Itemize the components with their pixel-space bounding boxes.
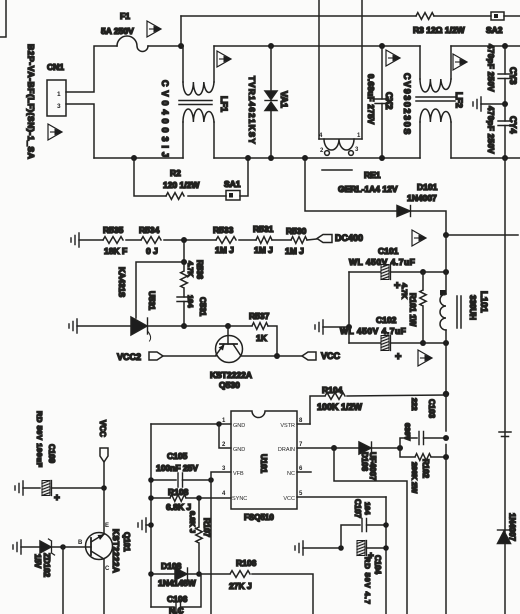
svg-text:TVR14621KSY: TVR14621KSY — [247, 76, 256, 145]
node Q101 base — [60, 544, 66, 550]
wire R530 to tag — [307, 239, 317, 240]
node C105 left — [148, 477, 154, 483]
svg-text:470pF 250V: 470pF 250V — [486, 44, 495, 92]
wire LF2 winding1 left lead — [419, 46, 421, 79]
inductor LF1 — [179, 82, 229, 122]
transistor Q101 KST2222A — [78, 523, 131, 614]
wire CN1 pin1 to fuse — [66, 46, 117, 92]
capacitor C109 — [35, 411, 104, 504]
svg-text:DRAIN: DRAIN — [278, 447, 295, 453]
svg-text:R537: R537 — [249, 311, 270, 321]
svg-text:1M J: 1M J — [285, 246, 304, 256]
node D108 right — [196, 571, 202, 577]
wire pin3 VFB to C105 — [211, 472, 231, 480]
svg-text:R2: R2 — [170, 168, 181, 178]
svg-text:VFB: VFB — [233, 471, 244, 477]
capacitor C104 — [357, 541, 386, 605]
connector CN1 part number B2P-VA-BF(LF)(SN)-1_SA — [26, 44, 36, 160]
svg-text:GERL-1A4 12V: GERL-1A4 12V — [338, 184, 398, 194]
svg-text:C107: C107 — [353, 499, 362, 519]
node rail A at R102 — [443, 454, 449, 460]
svg-text:WL 450V 4.7uF: WL 450V 4.7uF — [340, 326, 406, 336]
safety mark near LF2 — [453, 54, 468, 70]
resistor R535 — [103, 225, 127, 256]
node Q530 emitter — [274, 353, 280, 359]
diode D101 1N4007 — [397, 182, 438, 217]
wire bottom rail left — [94, 157, 183, 159]
wire bottom rail right — [451, 157, 520, 159]
svg-text:CX2: CX2 — [384, 92, 394, 110]
node C102 right — [420, 340, 426, 346]
svg-text:C104: C104 — [373, 555, 382, 575]
border corner top-left — [0, 0, 6, 37]
capacitor CY4 — [498, 104, 518, 158]
resistor R531 — [253, 224, 274, 255]
wire SA1 up to bottom rail — [240, 158, 248, 196]
wire DRAIN branch down — [334, 448, 407, 614]
svg-text:U101: U101 — [259, 454, 268, 474]
node rail A at C103 — [443, 435, 449, 441]
wire CN1 pin3 to bottom rail — [66, 104, 94, 158]
resistor R101 — [400, 272, 426, 343]
node VA1 bottom — [268, 155, 274, 161]
inductor LF1 part number — [160, 80, 170, 161]
svg-text:KA431S: KA431S — [117, 267, 126, 298]
node R2 branch right — [245, 155, 251, 161]
node C104 right — [383, 545, 389, 551]
svg-text:18K F: 18K F — [104, 246, 127, 256]
varistor VA1 part number TVR14621KSY — [247, 76, 256, 145]
svg-text:R108: R108 — [168, 487, 189, 497]
svg-text:1M J: 1M J — [215, 245, 234, 255]
svg-text:120 1/2W: 120 1/2W — [163, 180, 200, 190]
svg-text:DC400: DC400 — [335, 233, 363, 243]
node C101 right — [420, 269, 426, 275]
wire R533-R531 — [239, 239, 256, 241]
wire LF1 winding1 right lead to second rail — [213, 46, 215, 82]
svg-text:SA2: SA2 — [486, 25, 503, 35]
resistor R108 — [151, 487, 199, 512]
svg-text:L101: L101 — [478, 291, 489, 313]
capacitor CY4 value — [486, 106, 495, 154]
capacitor CX2 — [375, 46, 394, 158]
wire D101 to rail A — [411, 211, 447, 235]
node Q530 collector — [225, 323, 231, 329]
resistor R534 — [139, 225, 161, 256]
svg-text:1N4148W: 1N4148W — [158, 578, 197, 588]
wire block left rail — [348, 272, 350, 343]
zener ZD102 15V — [33, 539, 63, 578]
wire C101 node to rail A — [423, 271, 446, 273]
svg-text:ZD102: ZD102 — [42, 553, 51, 578]
ground C101 C102 — [315, 320, 349, 334]
node R536 top — [181, 259, 187, 265]
svg-text:VCC2: VCC2 — [117, 352, 141, 362]
svg-text:4.7K: 4.7K — [400, 283, 409, 299]
surge absorber SA1 — [224, 179, 241, 200]
svg-text:C102: C102 — [376, 315, 397, 325]
wire rail A seg4 — [445, 445, 447, 614]
node C109 VCC — [101, 485, 107, 491]
node fuse junction — [178, 43, 184, 49]
capacitor CX2 value — [366, 74, 375, 125]
wire rail A seg1 — [445, 235, 447, 272]
wire node down — [183, 240, 185, 262]
diode D106 UF4007 — [359, 442, 400, 481]
svg-text:D101: D101 — [417, 182, 438, 192]
svg-text:CY3: CY3 — [508, 67, 518, 85]
svg-text:FSQ510: FSQ510 — [244, 513, 274, 522]
wire pin1 GND — [151, 423, 231, 425]
ground CY mid — [473, 97, 505, 111]
wire rail A seg3 — [445, 394, 447, 431]
svg-text:VA1: VA1 — [279, 91, 289, 108]
connector CN1 label — [47, 62, 64, 72]
wire LF2 winding1 right lead — [450, 46, 452, 79]
capacitor CY3 value — [486, 44, 495, 92]
wire pin5 VCC — [297, 496, 386, 498]
tag VCC mid — [277, 351, 341, 361]
svg-text:R106: R106 — [236, 558, 257, 568]
svg-text:C531: C531 — [198, 297, 207, 317]
svg-text:5A 250V: 5A 250V — [101, 26, 134, 36]
wire R534 to node — [164, 239, 216, 241]
svg-text:CN1: CN1 — [47, 62, 64, 72]
ground R535 — [71, 233, 103, 247]
fuse F1 — [101, 11, 148, 52]
surge absorber SA2 — [486, 12, 504, 35]
ground C109 — [15, 481, 40, 495]
svg-text:VCC: VCC — [283, 496, 295, 502]
resistor R102 — [400, 448, 446, 494]
wire base node down — [62, 547, 64, 614]
wire node to Q530 collector node — [184, 325, 228, 327]
svg-text:U531: U531 — [147, 291, 156, 311]
resistor R104 — [310, 385, 446, 424]
tag VCC top — [98, 420, 108, 488]
ground mark right rail — [499, 432, 511, 437]
svg-text:SA1: SA1 — [224, 179, 241, 189]
svg-text:R536: R536 — [195, 260, 204, 280]
node CX2 top — [379, 43, 385, 49]
node CY mid — [502, 101, 508, 107]
svg-text:R107: R107 — [202, 518, 211, 538]
capacitor C101 — [349, 246, 423, 292]
node C105 right — [208, 477, 214, 483]
wire to D101 — [305, 158, 396, 211]
svg-text:3: 3 — [57, 103, 61, 110]
svg-text:KST2222A: KST2222A — [210, 370, 252, 380]
svg-text:LF1: LF1 — [219, 96, 229, 112]
wire C102 node to rail A — [423, 342, 446, 344]
svg-text:C103: C103 — [427, 399, 436, 419]
shunt regulator U531 KA431S — [117, 267, 156, 341]
transistor Q530 KST2222A — [210, 326, 277, 390]
capacitor C105 — [151, 451, 211, 487]
node feedback top — [181, 237, 187, 243]
svg-text:1M J: 1M J — [254, 245, 273, 255]
wire R537 to emitter node — [268, 326, 277, 356]
resistor R2 — [163, 168, 200, 199]
svg-text:0.68uF 275V: 0.68uF 275V — [366, 74, 375, 125]
wire rail A seg2 — [445, 343, 447, 394]
svg-text:R101 1W: R101 1W — [408, 293, 417, 327]
svg-text:WL 450V 4.7uF: WL 450V 4.7uF — [349, 257, 415, 267]
node pin1 — [216, 421, 222, 427]
svg-text:1N4007: 1N4007 — [508, 513, 517, 542]
wire R2 branch down — [134, 158, 166, 196]
wire KA431 to node — [148, 325, 185, 327]
svg-text:NC: NC — [287, 471, 295, 477]
safety mark near D101 — [412, 230, 427, 246]
capacitor C106 — [151, 574, 201, 614]
varistor VA1 — [265, 46, 289, 158]
inductor LF2 — [416, 79, 464, 122]
node CY column top — [502, 43, 508, 49]
svg-text:+: + — [394, 280, 400, 292]
svg-text:KST2222A: KST2222A — [111, 529, 120, 573]
node rail A mid — [443, 340, 449, 346]
svg-text:B: B — [78, 540, 83, 546]
node C107 right — [383, 522, 389, 528]
connector CN1 — [47, 80, 66, 116]
wire bottom rail middle — [214, 157, 420, 159]
wire pin6 NC stub — [297, 471, 311, 473]
svg-text:1: 1 — [57, 91, 61, 98]
IC U101 FSQ510 — [222, 411, 303, 522]
svg-text:Q101: Q101 — [122, 532, 131, 552]
relay RE1 — [319, 133, 398, 194]
svg-text:0 J: 0 J — [146, 246, 158, 256]
inductor LF2 part number CV930230S — [402, 73, 412, 136]
ground left bus — [138, 518, 151, 532]
svg-text:GND: GND — [233, 447, 245, 453]
tag DC400 — [317, 233, 363, 243]
wire junction up to top rail — [180, 16, 182, 46]
node R108 right — [196, 495, 202, 501]
wire R3 to SA2 — [434, 15, 491, 17]
wire LF1 winding2 right lead — [213, 122, 215, 158]
svg-text:RD 50V 100uF: RD 50V 100uF — [35, 411, 44, 468]
svg-text:Q530: Q530 — [219, 380, 240, 390]
svg-text:6.8K J: 6.8K J — [166, 502, 191, 512]
resistor R533 — [213, 225, 236, 255]
node CY column bottom — [502, 155, 508, 161]
node C531 bottom — [181, 323, 187, 329]
wire pin8 VSTR — [297, 423, 310, 425]
svg-text:R531: R531 — [253, 224, 274, 234]
wire R531-R530 — [272, 239, 291, 241]
wire VFB bus down — [210, 480, 212, 614]
svg-text:R3 12Ω 1/2W: R3 12Ω 1/2W — [413, 25, 466, 35]
safety mark near LF1 — [217, 51, 232, 67]
svg-text:VCC: VCC — [321, 351, 341, 361]
svg-text:200K 2W: 200K 2W — [410, 462, 419, 494]
resistor R3 — [413, 13, 466, 35]
svg-text:R535: R535 — [103, 225, 124, 235]
wire second rail — [214, 45, 520, 47]
svg-text:104: 104 — [186, 295, 195, 308]
node D106 cathode — [397, 445, 403, 451]
node D108 left — [148, 571, 154, 577]
wire node to right edge — [446, 234, 518, 236]
resistor R530 — [285, 226, 307, 256]
tag VCC2 — [117, 352, 216, 362]
svg-text:CV04003IJ: CV04003IJ — [160, 80, 170, 161]
svg-text:D106: D106 — [360, 452, 369, 472]
wire right rail — [504, 158, 506, 614]
svg-text:15V: 15V — [33, 554, 42, 569]
svg-text:C106: C106 — [167, 594, 188, 604]
node rail A upper — [443, 269, 449, 275]
wire LF1 winding2 left lead — [182, 122, 184, 158]
svg-text:E: E — [105, 523, 109, 529]
svg-text:SYNC: SYNC — [232, 496, 247, 502]
svg-text:6.8K J: 6.8K J — [188, 511, 197, 533]
resistor R107 — [188, 498, 211, 574]
ground ZD102 — [13, 540, 40, 554]
node C107 C104 left — [338, 545, 344, 551]
node rail A top — [443, 232, 449, 238]
resistor R106 — [199, 558, 313, 614]
svg-text:LF2: LF2 — [454, 92, 464, 108]
svg-text:R102: R102 — [421, 459, 430, 479]
resistor R537 — [228, 311, 270, 343]
node R108 left — [148, 495, 154, 501]
node VA1 top — [268, 43, 274, 49]
wire VCC node to Q101 — [103, 488, 105, 534]
svg-text:R534: R534 — [139, 225, 160, 235]
inductor L101 330UH — [440, 272, 489, 343]
diode D108 1N4148W — [151, 561, 199, 588]
svg-text:C: C — [105, 566, 110, 572]
wire fuse to junction — [148, 45, 181, 47]
svg-text:CY4: CY4 — [508, 116, 518, 134]
diode right rail 1N4007 — [498, 513, 517, 544]
node R2 branch left — [131, 155, 137, 161]
ground C104 — [295, 541, 341, 555]
wire base node to Q101 — [63, 546, 91, 548]
capacitor C102 — [340, 315, 423, 363]
svg-text:630V: 630V — [403, 423, 412, 441]
svg-text:100nF 25V: 100nF 25V — [156, 463, 198, 473]
wire R108 to pin4 SYNC — [199, 497, 231, 499]
capacitor CY3 — [498, 46, 518, 104]
wire LF2 winding2 leads — [420, 122, 451, 158]
wire LF1 winding1 left lead — [181, 46, 183, 82]
capacitor C103 — [400, 398, 446, 448]
wire R2 to SA1 — [188, 195, 226, 197]
node D101 branch — [302, 155, 308, 161]
svg-text:CV930230S: CV930230S — [402, 73, 412, 136]
svg-text:+: + — [54, 493, 60, 504]
svg-text:330UH: 330UH — [468, 295, 477, 320]
wire VCC branch down — [385, 497, 387, 614]
svg-text:100K 1/2W: 100K 1/2W — [317, 402, 363, 412]
svg-text:B2P-VA-BF(LF)(SN)-1_SA: B2P-VA-BF(LF)(SN)-1_SA — [26, 44, 36, 160]
capacitor C107 — [341, 499, 386, 548]
node bus ground — [148, 522, 154, 528]
svg-text:C101: C101 — [378, 246, 399, 256]
wire R535-R534 — [126, 239, 141, 241]
svg-text:R530: R530 — [286, 226, 307, 236]
relay RE1 contact leads — [319, 0, 362, 139]
svg-text:1N4007: 1N4007 — [407, 193, 437, 203]
node rail A at R104 — [443, 391, 449, 397]
wire pin1 to pin2 — [219, 424, 231, 448]
capacitor C531 — [177, 295, 207, 326]
svg-text:D108: D108 — [161, 561, 182, 571]
svg-text:RD 50V 4.7: RD 50V 4.7 — [363, 557, 372, 605]
safety mark near CX2 — [386, 50, 401, 66]
svg-text:1K: 1K — [256, 333, 268, 343]
wire SA2 to right edge — [504, 15, 520, 17]
svg-text:4.7K: 4.7K — [186, 261, 195, 277]
resistor R536 — [181, 260, 204, 297]
svg-text:VSTR: VSTR — [280, 423, 295, 429]
svg-text:VCC: VCC — [98, 420, 107, 437]
node CX2 bottom — [379, 155, 385, 161]
svg-text:27K J: 27K J — [229, 581, 252, 591]
svg-text:N.C: N.C — [169, 606, 184, 614]
safety mark near F1 — [147, 21, 162, 37]
wire left bus — [150, 424, 152, 607]
svg-text:R104: R104 — [322, 385, 343, 395]
svg-text:R533: R533 — [213, 225, 234, 235]
svg-text:RE1: RE1 — [364, 170, 381, 180]
wire pin7 DRAIN — [297, 447, 359, 449]
svg-text:F1: F1 — [120, 11, 130, 21]
wire node to KA431 ref — [136, 262, 184, 318]
svg-text:C105: C105 — [167, 451, 188, 461]
svg-text:104: 104 — [363, 502, 372, 515]
svg-text:C109: C109 — [47, 444, 56, 464]
svg-text:UF4007: UF4007 — [368, 452, 377, 481]
svg-text:+: + — [395, 351, 401, 363]
wire top rail — [181, 15, 416, 17]
svg-text:222: 222 — [410, 398, 419, 411]
safety mark below CN1 — [48, 124, 63, 140]
node block left ground — [346, 324, 352, 330]
ground KA431 — [69, 319, 131, 333]
svg-text:GND: GND — [233, 423, 245, 429]
svg-text:470pF 250V: 470pF 250V — [486, 106, 495, 154]
node DRAIN — [331, 445, 337, 451]
safety mark below C102 — [418, 350, 433, 366]
